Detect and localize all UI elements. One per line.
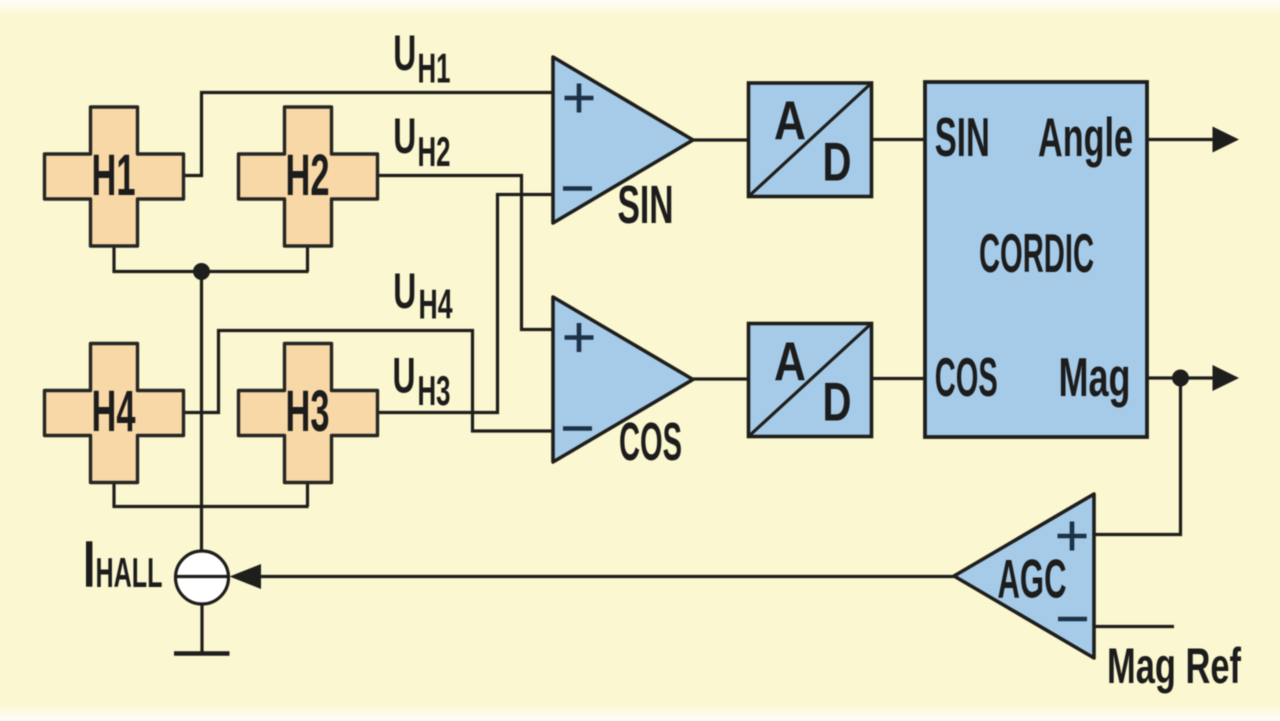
- svg-text:D: D: [823, 371, 852, 433]
- label U_H1: [393, 25, 450, 92]
- svg-text:COS: COS: [619, 412, 682, 472]
- label U_H4: [393, 263, 453, 328]
- bottom white vignette: [0, 705, 1280, 721]
- svg-text:D: D: [823, 131, 852, 193]
- hall element H2: [239, 107, 378, 246]
- svg-text:H3: H3: [418, 367, 451, 414]
- wire SIN amp to A/D 1: [693, 138, 748, 141]
- hall element H1: [45, 107, 184, 246]
- A/D converter 2: [749, 324, 872, 437]
- wire U_H2 (H2 output to COS +): [378, 176, 554, 330]
- svg-text:SIN: SIN: [935, 106, 990, 168]
- svg-text:COS: COS: [935, 346, 998, 408]
- hall element H4: [45, 344, 184, 483]
- svg-text:U: U: [393, 347, 416, 403]
- svg-text:A: A: [774, 330, 806, 392]
- svg-text:Mag Ref: Mag Ref: [1107, 638, 1241, 694]
- wire U_H4 (H4 output to COS −): [184, 331, 554, 432]
- current source I_HALL: [176, 551, 229, 604]
- svg-text:SIN: SIN: [618, 175, 674, 235]
- wire Mag Ref stub to AGC − input: [1094, 625, 1174, 628]
- svg-text:Mag: Mag: [1059, 346, 1131, 408]
- wire AGC output to current source: [261, 575, 954, 578]
- wire Mag to AGC + input: [1094, 378, 1181, 535]
- svg-text:H1: H1: [92, 143, 136, 208]
- op-amp AGC: [954, 494, 1094, 658]
- wire bias rail bottom (H4,H3 bottoms): [113, 481, 309, 507]
- svg-text:U: U: [393, 263, 416, 319]
- arrow Angle output: [1213, 127, 1240, 153]
- op-amp COS: [553, 297, 693, 462]
- wire current source to ground: [200, 604, 203, 652]
- wire Mag output: [1147, 376, 1214, 379]
- A/D converter 1: [749, 83, 872, 197]
- wire Angle output: [1147, 138, 1214, 141]
- wire U_H1 (H1 output to SIN +): [184, 93, 554, 176]
- svg-text:HALL: HALL: [96, 549, 163, 596]
- arrow into current source: [230, 564, 262, 589]
- CORDIC block U1: [925, 82, 1147, 437]
- wire COS amp to A/D 2: [693, 377, 748, 380]
- svg-text:H4: H4: [92, 379, 136, 444]
- svg-text:U: U: [393, 25, 416, 81]
- wire bias riser to current source: [200, 272, 203, 552]
- svg-text:H2: H2: [418, 128, 451, 175]
- svg-text:U: U: [393, 108, 416, 164]
- svg-text:H1: H1: [418, 44, 451, 91]
- op-amp SIN: [553, 57, 693, 223]
- svg-text:A: A: [774, 89, 806, 151]
- svg-text:H3: H3: [286, 379, 330, 444]
- hall element H3: [239, 344, 378, 483]
- svg-text:H2: H2: [286, 143, 330, 208]
- top white vignette: [0, 0, 1280, 14]
- wire A/D 2 to CORDIC COS: [872, 377, 926, 380]
- node junction dot Mag: [1172, 370, 1189, 387]
- svg-text:Angle: Angle: [1038, 106, 1133, 168]
- node junction dot top rail: [193, 263, 210, 280]
- svg-text:CORDIC: CORDIC: [979, 222, 1094, 284]
- ground: [174, 651, 230, 656]
- label U_H2: [393, 108, 450, 175]
- wire A/D 1 to CORDIC SIN: [872, 138, 926, 141]
- arrow Mag output: [1213, 365, 1240, 391]
- label U_H3: [393, 347, 451, 414]
- wire bias rail top (H1,H2 bottoms): [113, 246, 309, 272]
- label I_HALL: [86, 541, 163, 596]
- svg-text:AGC: AGC: [998, 548, 1067, 610]
- svg-text:H4: H4: [419, 281, 453, 328]
- wire U_H3 (H3 output to SIN −): [377, 195, 554, 413]
